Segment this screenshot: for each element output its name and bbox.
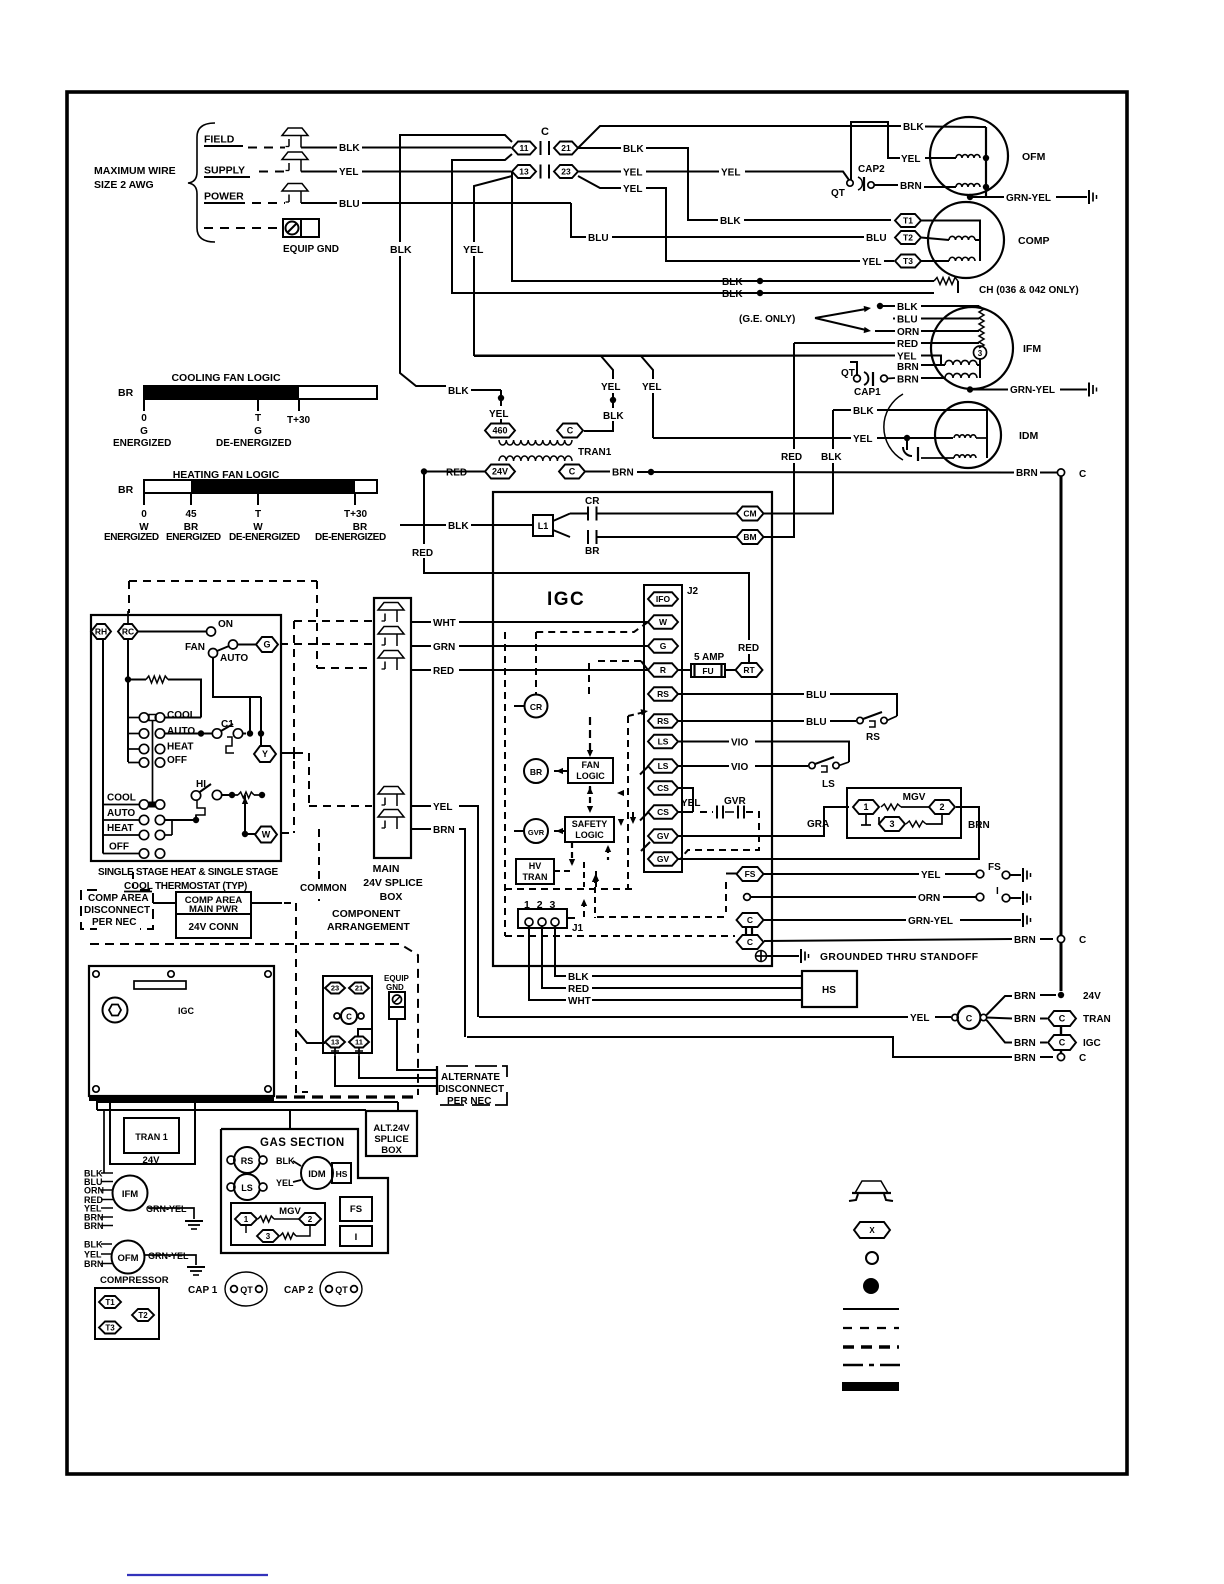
svg-text:GRA: GRA [807,819,829,830]
svg-text:BLK: BLK [623,144,644,155]
svg-text:BLK: BLK [448,521,469,532]
svg-text:DISCONNECT: DISCONNECT [84,905,150,916]
svg-text:IGC: IGC [178,1006,195,1016]
svg-text:BRN: BRN [900,181,922,192]
svg-text:BLU: BLU [806,690,827,701]
svg-text:EQUIP: EQUIP [384,974,410,983]
svg-text:J2: J2 [687,586,699,597]
svg-text:POWER: POWER [204,191,244,203]
svg-text:BLK: BLK [903,122,924,133]
svg-text:GV: GV [657,854,670,864]
svg-text:FIELD: FIELD [204,134,235,146]
svg-text:T: T [255,509,261,520]
svg-text:COMPONENT: COMPONENT [332,908,401,920]
svg-text:ON: ON [218,619,233,630]
svg-text:QT: QT [240,1285,253,1295]
svg-text:3: 3 [889,819,894,829]
svg-text:T2: T2 [138,1311,148,1320]
svg-text:BRN: BRN [1014,935,1036,946]
svg-text:RED: RED [897,339,918,350]
svg-text:GRN: GRN [433,642,455,653]
svg-text:IFO: IFO [656,594,671,604]
svg-text:G: G [660,641,667,651]
svg-text:IFM: IFM [1023,343,1041,355]
svg-text:FAN: FAN [582,760,600,770]
svg-text:FS: FS [988,862,1001,873]
svg-text:COMMON: COMMON [300,883,347,894]
svg-text:OFM: OFM [117,1253,138,1264]
svg-text:RED: RED [412,548,433,559]
svg-text:YEL: YEL [853,434,872,445]
svg-text:BRN: BRN [1014,1014,1036,1025]
svg-text:BLK: BLK [720,216,741,227]
svg-text:BLK: BLK [84,1240,103,1250]
svg-text:21: 21 [355,984,363,993]
svg-text:FS: FS [745,869,756,879]
svg-text:RED: RED [568,984,589,995]
svg-text:ALT.24V: ALT.24V [373,1123,410,1134]
svg-text:J1: J1 [572,923,584,934]
svg-text:COOL: COOL [107,793,136,804]
svg-text:GRN-YEL: GRN-YEL [148,1251,189,1261]
svg-text:YEL: YEL [339,167,358,178]
svg-text:T2: T2 [903,233,913,243]
svg-text:13: 13 [519,167,529,177]
svg-text:ORN: ORN [918,893,940,904]
svg-text:BLK: BLK [722,277,743,288]
svg-text:YEL: YEL [862,257,881,268]
svg-text:OFF: OFF [109,842,129,853]
svg-text:COOLING FAN LOGIC: COOLING FAN LOGIC [171,372,280,384]
svg-text:RC: RC [122,627,134,637]
svg-text:L1: L1 [538,521,549,531]
svg-text:BRN: BRN [1014,991,1036,1002]
svg-text:MGV: MGV [279,1206,301,1217]
svg-text:BLU: BLU [897,314,918,325]
svg-text:0: 0 [141,509,147,520]
svg-text:RS: RS [241,1156,254,1166]
svg-text:BLK: BLK [568,972,589,983]
svg-text:DE-ENERGIZED: DE-ENERGIZED [315,532,386,543]
svg-text:RS: RS [657,716,669,726]
svg-text:24V: 24V [143,1155,161,1166]
svg-text:C: C [747,937,753,947]
svg-text:YEL: YEL [623,184,642,195]
svg-text:13: 13 [331,1038,339,1047]
svg-text:GAS SECTION: GAS SECTION [260,1137,345,1149]
svg-text:BM: BM [743,532,756,542]
svg-text:WHT: WHT [568,996,591,1007]
svg-text:T3: T3 [105,1323,115,1332]
svg-text:BRN: BRN [84,1221,104,1231]
svg-text:BLU: BLU [339,199,360,210]
svg-text:2: 2 [939,802,944,812]
svg-text:LS: LS [241,1183,253,1193]
svg-text:CR: CR [530,702,542,712]
svg-text:C: C [1079,1053,1086,1064]
svg-text:MAXIMUM WIRE: MAXIMUM WIRE [94,165,176,177]
svg-text:LOGIC: LOGIC [576,771,605,781]
svg-text:LS: LS [658,761,669,771]
svg-text:YEL: YEL [681,798,700,809]
svg-text:COMP: COMP [1018,235,1050,247]
svg-text:W: W [262,830,271,840]
svg-text:COMP AREA: COMP AREA [88,893,149,904]
svg-text:BLK: BLK [390,244,412,256]
svg-text:G: G [263,640,270,650]
svg-text:GND: GND [386,983,404,992]
svg-text:C: C [747,915,753,925]
svg-text:RS: RS [657,689,669,699]
svg-text:W: W [659,617,668,627]
svg-text:BR: BR [585,546,600,557]
svg-text:BRN: BRN [84,1259,104,1269]
svg-text:VIO: VIO [731,762,748,773]
svg-text:PER NEC: PER NEC [92,917,136,928]
svg-text:GV: GV [657,831,670,841]
svg-text:EQUIP GND: EQUIP GND [283,244,339,255]
svg-text:T+30: T+30 [344,509,368,520]
svg-text:YEL: YEL [642,382,661,393]
svg-text:RT: RT [743,665,755,675]
svg-text:CR: CR [585,496,600,507]
svg-text:YEL: YEL [910,1013,929,1024]
svg-text:BOX: BOX [380,891,403,903]
svg-text:DISCONNECT: DISCONNECT [438,1084,504,1095]
svg-text:T: T [255,413,261,424]
svg-text:OFM: OFM [1022,151,1046,163]
svg-text:HV: HV [529,861,542,871]
svg-text:HS: HS [336,1169,348,1179]
svg-text:SPLICE: SPLICE [374,1134,408,1145]
svg-text:C: C [1079,469,1086,480]
svg-text:BOX: BOX [381,1145,402,1156]
svg-text:1: 1 [863,802,868,812]
svg-text:BRN: BRN [433,825,455,836]
svg-text:24V: 24V [492,467,508,477]
svg-text:(G.E. ONLY): (G.E. ONLY) [739,314,795,325]
svg-text:FU: FU [702,666,713,676]
svg-text:MAIN PWR: MAIN PWR [189,904,238,915]
svg-text:G: G [140,426,148,437]
svg-text:ENERGIZED: ENERGIZED [113,438,171,449]
svg-text:BLK: BLK [339,143,360,154]
svg-text:YEL: YEL [433,802,452,813]
svg-text:MGV: MGV [903,792,926,803]
svg-text:T+30: T+30 [287,415,311,426]
svg-text:460: 460 [492,426,507,436]
svg-text:DE-ENERGIZED: DE-ENERGIZED [216,438,292,449]
svg-text:BRN: BRN [1016,468,1038,479]
svg-text:G: G [254,426,262,437]
svg-text:SAFETY: SAFETY [572,819,608,829]
svg-text:GRN-YEL: GRN-YEL [908,916,953,927]
svg-text:YEL: YEL [489,409,508,420]
svg-text:BLK: BLK [603,411,624,422]
svg-text:YEL: YEL [84,1250,102,1260]
svg-text:THERMOSTAT (TYP): THERMOSTAT (TYP) [155,881,247,892]
svg-text:T3: T3 [903,256,913,266]
svg-text:AUTO: AUTO [107,808,135,819]
svg-text:GVR: GVR [528,828,545,837]
svg-text:I: I [996,886,999,897]
svg-text:I: I [355,1232,358,1243]
svg-text:YEL: YEL [276,1178,294,1188]
svg-text:C: C [567,426,574,436]
svg-text:24V SPLICE: 24V SPLICE [363,877,423,889]
svg-text:BLK: BLK [853,406,874,417]
svg-text:AUTO: AUTO [167,726,195,737]
svg-text:T1: T1 [903,216,913,226]
svg-text:R: R [660,665,666,675]
svg-text:QT: QT [831,188,845,199]
svg-text:0: 0 [141,413,147,424]
svg-text:BLK: BLK [897,302,918,313]
svg-text:3: 3 [266,1232,271,1241]
svg-text:YEL: YEL [921,870,940,881]
svg-text:RH: RH [95,627,107,637]
svg-text:FS: FS [350,1204,362,1215]
svg-text:CAP 2: CAP 2 [284,1285,314,1296]
svg-text:QT: QT [335,1285,348,1295]
svg-text:23: 23 [561,167,571,177]
svg-text:GRN-YEL: GRN-YEL [146,1204,187,1214]
svg-text:2: 2 [308,1215,313,1224]
svg-text:C: C [1079,935,1086,946]
svg-text:HEAT: HEAT [167,742,193,753]
svg-text:OFF: OFF [167,755,187,766]
svg-text:YEL: YEL [601,382,620,393]
svg-text:FAN: FAN [185,642,205,653]
svg-text:GVR: GVR [724,796,746,807]
svg-text:HEAT: HEAT [107,823,133,834]
svg-text:BLK: BLK [276,1156,295,1166]
svg-text:T1: T1 [105,1298,115,1307]
svg-text:24V: 24V [1083,991,1101,1002]
svg-text:C: C [569,467,576,477]
svg-text:BLU: BLU [806,717,827,728]
svg-text:C: C [966,1014,973,1024]
svg-text:IGC: IGC [547,589,585,610]
svg-text:ENERGIZED: ENERGIZED [104,532,159,543]
svg-text:BRN: BRN [897,362,919,373]
svg-text:LOGIC: LOGIC [575,830,604,840]
svg-text:21: 21 [561,143,571,153]
svg-text:IDM: IDM [308,1169,326,1180]
svg-text:YEL: YEL [901,154,920,165]
svg-text:COOL: COOL [167,710,196,721]
svg-text:ALTERNATE: ALTERNATE [441,1072,500,1083]
svg-text:COMPRESSOR: COMPRESSOR [100,1275,169,1286]
svg-text:SIZE 2 AWG: SIZE 2 AWG [94,179,154,191]
svg-text:WHT: WHT [433,618,456,629]
svg-text:GRN-YEL: GRN-YEL [1006,193,1051,204]
svg-text:SINGLE STAGE HEAT & SINGLE STA: SINGLE STAGE HEAT & SINGLE STAGE [98,867,278,878]
svg-text:1: 1 [244,1215,249,1224]
svg-text:C: C [346,1013,352,1022]
svg-text:ENERGIZED: ENERGIZED [166,532,221,543]
svg-text:ORN: ORN [897,327,919,338]
svg-text:IDM: IDM [1019,430,1039,442]
svg-text:BLK: BLK [448,386,469,397]
svg-text:RED: RED [446,468,467,479]
svg-text:X: X [869,1226,875,1235]
svg-text:LS: LS [658,737,669,747]
svg-text:BR: BR [118,387,134,399]
svg-text:IGC: IGC [1083,1038,1101,1049]
svg-text:24V CONN: 24V CONN [188,922,238,933]
svg-text:CAP 1: CAP 1 [188,1285,218,1296]
svg-text:Y: Y [262,749,268,759]
svg-text:C: C [541,126,549,138]
svg-text:BR: BR [530,767,542,777]
svg-text:BRN: BRN [968,820,990,831]
svg-text:GROUNDED THRU STANDOFF: GROUNDED THRU STANDOFF [820,952,978,963]
svg-text:5 AMP: 5 AMP [694,652,725,663]
svg-text:YEL: YEL [897,351,916,362]
svg-text:CS: CS [657,783,669,793]
svg-text:CM: CM [743,509,756,519]
svg-text:BLU: BLU [588,233,609,244]
svg-text:CH (036 & 042 ONLY): CH (036 & 042 ONLY) [979,285,1079,296]
svg-text:DE-ENERGIZED: DE-ENERGIZED [229,532,300,543]
svg-text:BRN: BRN [1014,1053,1036,1064]
svg-text:TRAN 1: TRAN 1 [135,1132,168,1142]
svg-text:TRAN1: TRAN1 [578,447,612,458]
svg-text:TRAN: TRAN [523,872,548,882]
svg-text:CAP2: CAP2 [858,164,885,175]
svg-text:45: 45 [185,509,197,520]
svg-text:23: 23 [331,984,339,993]
svg-text:TRAN: TRAN [1083,1014,1111,1025]
svg-text:CS: CS [657,807,669,817]
svg-text:3: 3 [978,349,983,358]
svg-text:C: C [1059,1038,1066,1048]
svg-text:RED: RED [781,452,802,463]
svg-text:11: 11 [520,143,529,153]
svg-text:MAIN: MAIN [373,863,400,875]
svg-text:BRN: BRN [1014,1038,1036,1049]
svg-text:BLK: BLK [722,289,743,300]
svg-text:BLU: BLU [866,233,887,244]
svg-text:HS: HS [822,985,836,996]
svg-text:VIO: VIO [731,738,748,749]
svg-text:BRN: BRN [897,374,919,385]
svg-text:YEL: YEL [721,168,740,179]
svg-text:IFM: IFM [122,1189,138,1200]
svg-text:YEL: YEL [623,168,642,179]
svg-text:AUTO: AUTO [220,653,248,664]
svg-text:QT: QT [841,368,855,379]
svg-text:BR: BR [118,484,134,496]
svg-text:C: C [1059,1014,1066,1024]
svg-text:LS: LS [822,779,835,790]
svg-text:RED: RED [738,643,759,654]
svg-text:BLK: BLK [821,452,842,463]
svg-text:RED: RED [433,666,454,677]
svg-text:SUPPLY: SUPPLY [204,165,245,177]
svg-text:BRN: BRN [612,468,634,479]
svg-text:RS: RS [866,732,880,743]
svg-text:11: 11 [355,1038,363,1047]
svg-text:GRN-YEL: GRN-YEL [1010,385,1055,396]
svg-text:YEL: YEL [463,244,484,256]
svg-text:CAP1: CAP1 [854,387,881,398]
svg-text:ARRANGEMENT: ARRANGEMENT [327,921,410,933]
